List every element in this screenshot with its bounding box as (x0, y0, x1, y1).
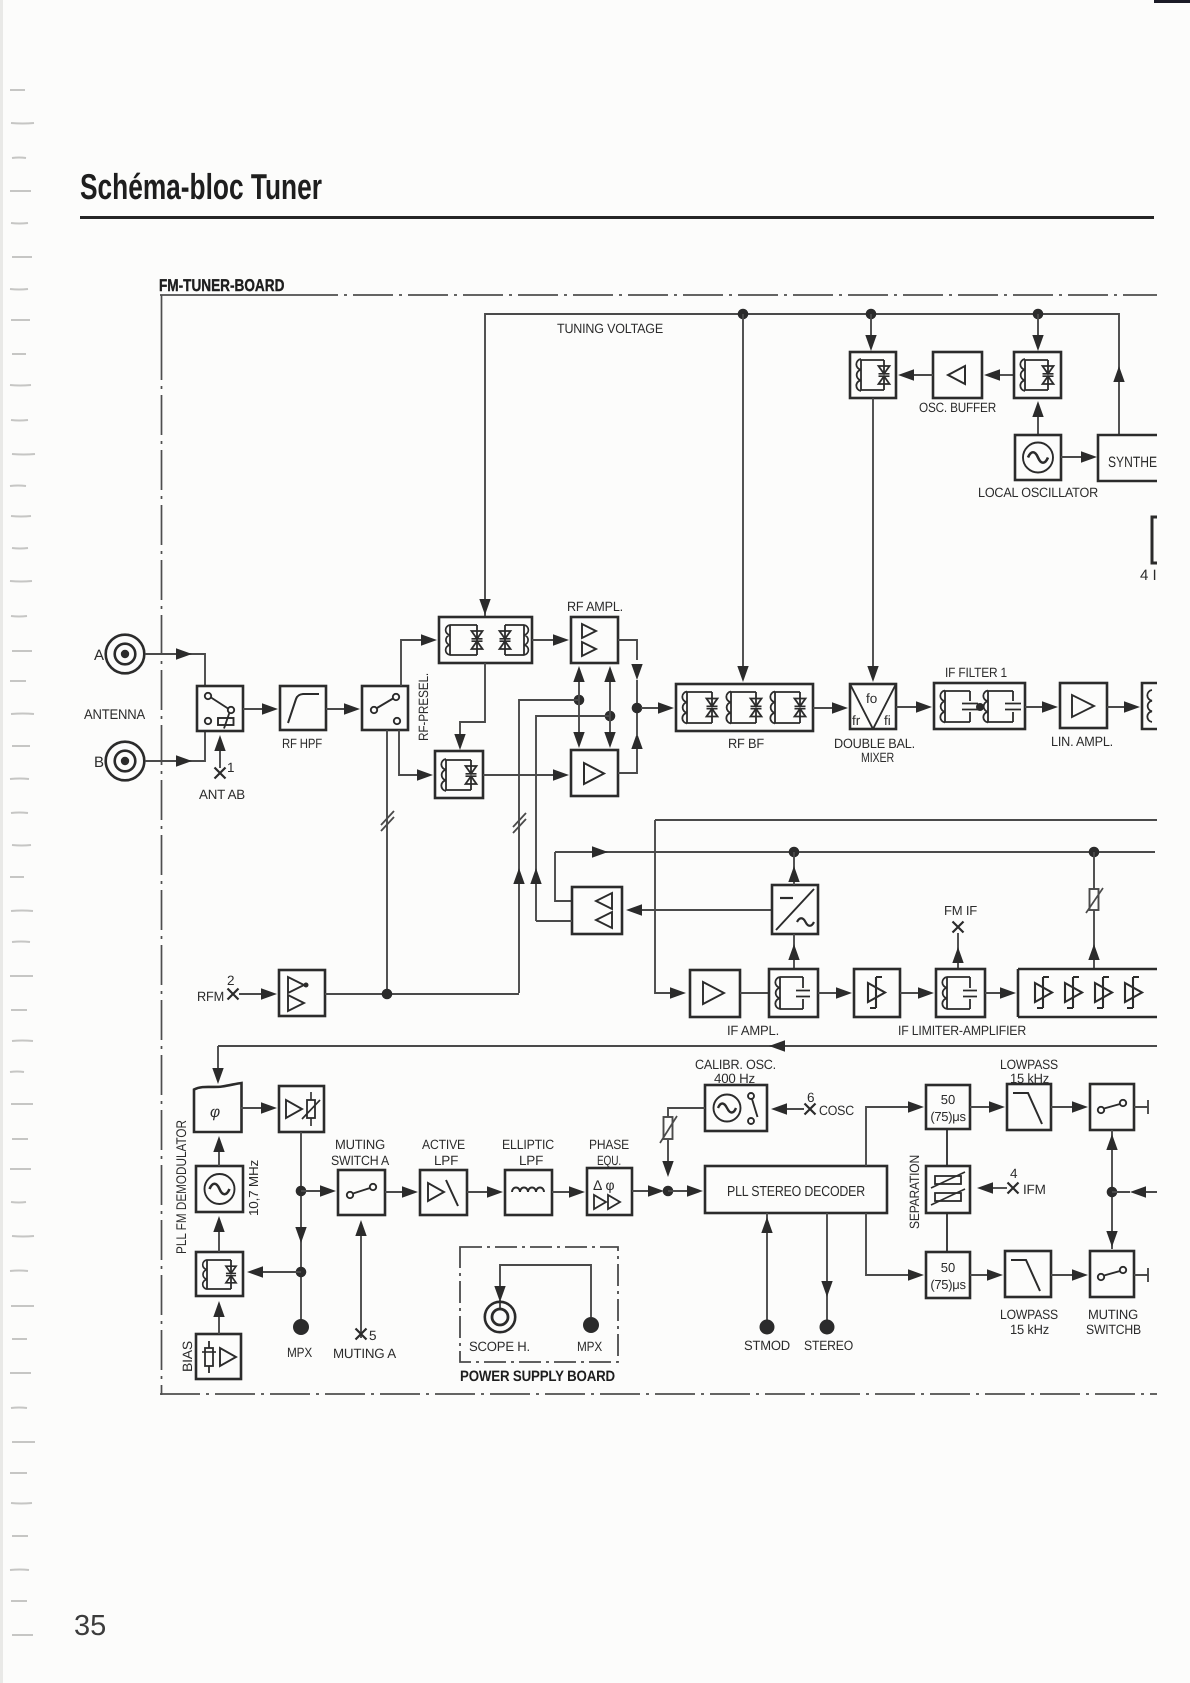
label ANT AB (199, 787, 245, 802)
svg-text:10,7 MHz: 10,7 MHz (246, 1160, 261, 1216)
svg-text:IF FILTER 1: IF FILTER 1 (945, 665, 1007, 680)
page left edge (0, 0, 3, 1683)
svg-text:DOUBLE BAL.: DOUBLE BAL. (834, 736, 915, 751)
label 50 (75)us top (930, 1092, 966, 1124)
svg-text:MPX: MPX (577, 1339, 602, 1354)
svg-text:LIN. AMPL.: LIN. AMPL. (1051, 734, 1113, 749)
amplifier with pot (279, 1086, 324, 1132)
wire FM IF tap (952, 933, 963, 969)
wire IF bus down to IF ampl (655, 820, 686, 999)
wire bus down to phase det (212, 1046, 223, 1084)
svg-text:STMOD: STMOD (744, 1338, 790, 1353)
resistor R level (1086, 852, 1103, 969)
svg-text:fi: fi (884, 713, 891, 728)
wire sum to RF BF (641, 702, 674, 713)
connector SCOPE H (485, 1302, 515, 1332)
wire muting B from edge (1112, 1186, 1157, 1197)
label POWER SUPPLY BOARD (460, 1368, 615, 1385)
svg-text:COSC: COSC (819, 1103, 854, 1118)
svg-text:RF BF: RF BF (728, 736, 764, 751)
connector B (106, 742, 145, 781)
wire AGC det lower output (536, 920, 572, 922)
wire RF BF to mixer (813, 702, 848, 713)
node tuning/osc tank (866, 309, 877, 320)
power board border (460, 1247, 618, 1362)
filter LOWPASS 15k bottom (1005, 1251, 1051, 1297)
node MPX junction 1 (296, 1186, 307, 1197)
svg-text:A: A (94, 647, 104, 664)
wire tuning to RF BF (737, 314, 748, 682)
wire LO to tank (1032, 401, 1043, 435)
op-amp U osc buffer (933, 352, 982, 398)
svg-text:LOWPASS: LOWPASS (1000, 1057, 1058, 1072)
wire AM det top (788, 852, 799, 885)
amplifier LIN AMPL (1060, 683, 1107, 728)
svg-text:EQU.: EQU. (597, 1153, 621, 1168)
label MUTING SWITCHB (1086, 1307, 1141, 1337)
filter ACTIVE LPF (420, 1170, 467, 1215)
filter RF HPF (280, 686, 326, 730)
wire transformer2 to limiter chain (985, 987, 1016, 998)
wire tuning to osc tank (865, 314, 876, 351)
wire A to switch (145, 648, 205, 686)
wire lower amp output (618, 708, 643, 773)
svg-text:ANTENNA: ANTENNA (84, 706, 146, 722)
wire limiter to transformer2 (900, 987, 934, 998)
page number 35 (74, 1610, 106, 1643)
label LOCAL OSCILLATOR (978, 485, 1098, 500)
svg-text:(75)μs: (75)μs (930, 1277, 966, 1292)
tank IF transformer 2 (936, 969, 985, 1017)
svg-text:BIAS: BIAS (180, 1341, 195, 1372)
deemphasis 50/75us top (926, 1085, 970, 1129)
wire COSC to calibr osc (771, 1103, 804, 1114)
svg-text:IF LIMITER-AMPLIFIER: IF LIMITER-AMPLIFIER (898, 1023, 1026, 1038)
wire AGC feed lower (530, 716, 610, 921)
wire muting B control (1106, 1130, 1117, 1249)
node AGC bus tap (789, 847, 800, 858)
board border left (161, 295, 163, 340)
wire STMOD (761, 1213, 772, 1320)
svg-text:50: 50 (941, 1260, 955, 1275)
label STEREO (804, 1338, 853, 1353)
label IF LIMITER-AMPLIFIER (898, 1023, 1026, 1038)
wire tuning into preselector tank arrow (479, 599, 490, 615)
limiter chain 4x (cut) (1018, 969, 1157, 1017)
wire muting B bottom output (1134, 1268, 1148, 1282)
label SCOPE H. (469, 1339, 530, 1354)
tank RF preselector double (439, 617, 532, 663)
resistor calibr level (660, 1108, 705, 1177)
wire MPX to scope (494, 1265, 591, 1317)
wire AGC into upper amp (573, 666, 584, 700)
label OSC. BUFFER (919, 400, 996, 415)
wire to muting switch top (1051, 1101, 1088, 1112)
svg-text:STEREO: STEREO (804, 1338, 853, 1353)
wire IFM to separation (977, 1182, 1007, 1193)
wire VCO to phase det (213, 1136, 224, 1166)
svg-text:SEPARATION: SEPARATION (907, 1155, 922, 1229)
svg-text:MIXER: MIXER (861, 750, 894, 765)
label 50 (75)us bottom (930, 1260, 966, 1292)
wire phase det to amp (241, 1102, 277, 1113)
svg-text:ANT AB: ANT AB (199, 787, 245, 802)
svg-text:6: 6 (807, 1090, 815, 1105)
wire tuning voltage bus (485, 314, 1119, 616)
svg-text:φ: φ (210, 1104, 220, 1121)
wire IF return bus (655, 819, 1157, 821)
label LOWPASS 15kHz bottom (1000, 1307, 1058, 1337)
wire ANT AB control (214, 735, 225, 768)
label CALIBR. OSC. 400Hz (695, 1057, 776, 1086)
wire feedback to tank (247, 1266, 301, 1277)
wire tuning to LO tank (1032, 314, 1043, 351)
wire filter to lin ampl (1025, 701, 1058, 712)
label STMOD (744, 1338, 790, 1353)
terminal STEREO (820, 1320, 835, 1335)
node test point 4 IFM (1008, 1166, 1046, 1197)
label ACTIVE LPF (422, 1137, 465, 1168)
wire B to switch (145, 731, 205, 767)
label SEPARATION (907, 1155, 922, 1229)
label 10,7 MHz (246, 1160, 261, 1216)
svg-text:RFM: RFM (197, 989, 224, 1004)
wire switch to RF HPF (243, 703, 278, 714)
node MPX main (663, 1186, 674, 1197)
svg-text:SWITCHB: SWITCHB (1086, 1322, 1141, 1337)
wire muting B top output (1134, 1100, 1148, 1114)
svg-text:SYNTHE: SYNTHE (1108, 454, 1157, 471)
wire mixer to IF filter (896, 701, 932, 712)
label RF HPF (282, 736, 322, 751)
amplifier RFM (279, 970, 325, 1016)
switch S2 RF preselector (362, 686, 408, 730)
label LOWPASS 15kHz top (1000, 1057, 1058, 1086)
svg-text:400 Hz: 400 Hz (714, 1071, 755, 1086)
wire lower tank to amp (483, 769, 569, 780)
limiter single (854, 969, 900, 1017)
switch S1 ANT AB (197, 686, 243, 731)
label RF BF (728, 736, 764, 751)
connector bracket 4 (1152, 517, 1157, 563)
wire BIAS to tank (213, 1301, 224, 1334)
svg-text:MUTING A: MUTING A (333, 1346, 396, 1361)
svg-text:B: B (94, 754, 104, 771)
wire switch lower throw long (381, 730, 394, 992)
title rule (80, 216, 1154, 219)
label ELLIPTIC LPF (502, 1137, 554, 1168)
tank RF preselector lower (435, 751, 483, 798)
svg-text:SCOPE H.: SCOPE H. (469, 1339, 530, 1354)
svg-text:MUTING: MUTING (1088, 1307, 1138, 1322)
switch muting A (338, 1170, 385, 1215)
svg-text:LOWPASS: LOWPASS (1000, 1307, 1058, 1322)
wire HPF to preselector switch (326, 703, 360, 714)
filter IF (cut) (1142, 683, 1157, 729)
node AGC lower (605, 711, 616, 722)
amplifier IF AMPL (690, 970, 740, 1017)
label B (94, 754, 104, 771)
wire lin ampl to filter2 (1107, 701, 1140, 712)
wire tank to VCO (213, 1216, 224, 1252)
wire active LPF to elliptic (467, 1186, 503, 1197)
wire muting A to active LPF (385, 1186, 418, 1197)
wire to muting switch A (301, 1185, 336, 1196)
node RFM switch join (382, 989, 393, 1000)
wire LO to synthesizer (1061, 451, 1097, 462)
label MUTING SWITCH A (331, 1137, 389, 1168)
wire AGC feed upper (513, 700, 579, 993)
wire AM det bottom (788, 934, 799, 969)
label RF-PRESEL. (416, 673, 431, 741)
svg-text:50: 50 (941, 1092, 955, 1107)
label 4 (1140, 567, 1157, 584)
svg-text:SWITCH A: SWITCH A (331, 1153, 389, 1168)
wire switch to lower tank (399, 730, 433, 781)
deemphasis 50/75us bottom (926, 1252, 970, 1298)
label SYNTHESIZER (cut) (1108, 454, 1157, 471)
svg-text:LPF: LPF (519, 1153, 543, 1168)
wire tuning jog to lower tank (454, 663, 485, 750)
svg-text:IF AMPL.: IF AMPL. (727, 1023, 779, 1038)
oscillator G1 local oscillator (1015, 435, 1061, 480)
wire to lowpass bottom (970, 1269, 1003, 1280)
svg-text:OSC. BUFFER: OSC. BUFFER (919, 400, 996, 415)
wire AM det to AGC det (626, 904, 772, 915)
separation network (926, 1166, 970, 1213)
terminal MPX psu (583, 1317, 599, 1333)
connector A (106, 635, 145, 674)
amplifier AGC detector (572, 887, 622, 934)
decoder PLL STEREO DECODER (705, 1166, 887, 1213)
label fo (866, 691, 877, 706)
svg-text:15 kHz: 15 kHz (1010, 1322, 1049, 1337)
page corner mark (1154, 0, 1190, 3)
label fr (852, 713, 861, 728)
label PHASE EQU. (589, 1137, 629, 1168)
label LIN. AMPL. (1051, 734, 1113, 749)
svg-text:ELLIPTIC: ELLIPTIC (502, 1137, 554, 1152)
svg-text:ACTIVE: ACTIVE (422, 1137, 465, 1152)
filter LOWPASS 15k top (1007, 1084, 1051, 1130)
wire amp down MPX (295, 1132, 306, 1320)
label phi (210, 1104, 220, 1121)
oscillator CALIBR OSC 400Hz (705, 1085, 767, 1131)
wire to muting switch bottom (1051, 1269, 1088, 1280)
svg-text:PHASE: PHASE (589, 1137, 629, 1152)
svg-text:FM IF: FM IF (944, 903, 977, 918)
label IF FILTER1 (945, 665, 1007, 680)
wire node to decoder (668, 1185, 703, 1196)
node test point 5 (356, 1328, 377, 1343)
label PLL FM DEMODULATOR (173, 1120, 189, 1254)
label BIAS (180, 1341, 195, 1372)
node tuning/RFBF (738, 309, 749, 320)
svg-text:POWER SUPPLY BOARD: POWER SUPPLY BOARD (460, 1368, 615, 1385)
wire to lowpass top (970, 1101, 1005, 1112)
tank L1 osc buffer output (850, 352, 896, 398)
wire IF ampl to transformer (740, 992, 769, 994)
label A (94, 647, 104, 664)
tank VCO (196, 1252, 243, 1296)
svg-text:TUNING VOLTAGE: TUNING VOLTAGE (557, 321, 663, 336)
label RF AMPL. (567, 599, 623, 614)
svg-text:CALIBR. OSC.: CALIBR. OSC. (695, 1057, 776, 1072)
title (80, 166, 322, 208)
binding marks left edge (0, 0, 70, 1683)
node test point 6 COSC (805, 1090, 855, 1118)
phase detector (194, 1083, 242, 1132)
wire STEREO (821, 1213, 832, 1320)
label ANTENNA (84, 706, 146, 722)
svg-text:2: 2 (227, 973, 235, 988)
label fi (884, 713, 891, 728)
label TUNING VOLTAGE (557, 321, 663, 336)
filter ELLIPTIC LPF (505, 1170, 552, 1215)
svg-text:fr: fr (852, 713, 861, 728)
wire phase equ to node (632, 1185, 664, 1196)
wire RFM to amp (239, 988, 277, 999)
terminal MPX (293, 1319, 309, 1335)
tank L2 local oscillator (1014, 352, 1061, 398)
detector AM det (772, 885, 818, 934)
switch muting B top (1090, 1084, 1134, 1130)
amplifier RF lower (571, 750, 618, 796)
svg-text:MPX: MPX (287, 1345, 312, 1360)
node AGC upper (574, 695, 585, 706)
amplifier BIAS (196, 1334, 241, 1379)
oscillator VCO 10.7MHz (196, 1166, 243, 1212)
filter IF FILTER1 (934, 683, 1025, 729)
svg-text:(75)μs: (75)μs (930, 1109, 966, 1124)
board border bottom (160, 1393, 1157, 1395)
node muting B (1107, 1187, 1118, 1198)
board label (159, 276, 284, 296)
wire RFM amp output (325, 993, 519, 995)
label MPX psu (577, 1339, 602, 1354)
svg-text:LPF: LPF (434, 1153, 458, 1168)
terminal STMOD (760, 1320, 775, 1335)
svg-text:RF AMPL.: RF AMPL. (567, 599, 623, 614)
wire LO tank to buffer (984, 369, 1014, 380)
node RF sum (632, 703, 643, 714)
svg-text:Δ φ: Δ φ (593, 1177, 615, 1193)
wire tank to RF ampl (532, 634, 569, 645)
svg-text:RF-PRESEL.: RF-PRESEL. (416, 673, 431, 741)
label DOUBLE BAL. MIXER (834, 736, 915, 765)
tank RF BF triple (676, 684, 813, 731)
amplifier RF AMPL (571, 617, 618, 663)
label MUTING A (333, 1346, 396, 1361)
wire AGC sense bus (555, 846, 1155, 857)
wire transformer to limiter (818, 987, 852, 998)
svg-text:LOCAL OSCILLATOR: LOCAL OSCILLATOR (978, 485, 1098, 500)
node level pot tap (1089, 847, 1100, 858)
label IF AMPL. (727, 1023, 779, 1038)
mixer U3 double balanced (850, 684, 896, 729)
wire buffer to tank (898, 369, 933, 380)
svg-text:RF HPF: RF HPF (282, 736, 322, 751)
wire MPX return bus (218, 1040, 1157, 1051)
wire muting A control (355, 1220, 366, 1338)
svg-text:fo: fo (866, 691, 877, 706)
wire osc tank to mixer (867, 398, 878, 682)
wire AGC2 down to lower amp (604, 716, 615, 748)
svg-text:IFM: IFM (1023, 1182, 1046, 1197)
board border top (160, 294, 298, 296)
node test point FM IF (944, 903, 977, 933)
wire AGC det to bus (555, 852, 572, 901)
svg-text:PLL STEREO DECODER: PLL STEREO DECODER (727, 1184, 865, 1200)
svg-text:15 kHz: 15 kHz (1010, 1071, 1049, 1086)
wire AGC down to lower amp (573, 700, 584, 748)
equalizer PHASE EQU (587, 1168, 632, 1215)
wire separation to deemphasis (946, 1129, 948, 1252)
node test point 2 RFM (197, 973, 239, 1004)
wire elliptic to phase equ (552, 1186, 585, 1197)
wire decoder left channel up (866, 1101, 924, 1166)
node test point 1 (215, 760, 235, 779)
synthesizer U2 box (cut) (1098, 435, 1157, 481)
svg-text:4 I: 4 I (1140, 567, 1157, 584)
label PLL STEREO DECODER (727, 1184, 865, 1200)
node coupling dot (976, 703, 984, 711)
switch muting B bottom (1090, 1251, 1134, 1297)
node tuning/LO tank (1033, 309, 1044, 320)
wire synth to tuning bus arrow (1113, 366, 1124, 382)
svg-text:MUTING: MUTING (335, 1137, 385, 1152)
wire upper amp output (618, 640, 643, 708)
wire switch to preselector tank (401, 634, 437, 686)
svg-text:PLL FM DEMODULATOR: PLL FM DEMODULATOR (173, 1120, 189, 1254)
label MPX (287, 1345, 312, 1360)
svg-text:1: 1 (227, 760, 235, 775)
node MPX junction 2 (296, 1267, 307, 1278)
wire AGC2 into upper amp (604, 666, 615, 716)
tank IF transformer 1 (769, 969, 818, 1017)
wire decoder right channel down (866, 1213, 924, 1281)
svg-text:5: 5 (369, 1328, 377, 1343)
svg-text:4: 4 (1010, 1166, 1018, 1181)
